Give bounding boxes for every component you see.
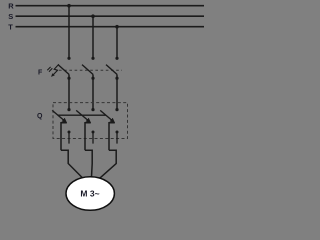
svg-text:M 3~: M 3~ — [80, 189, 99, 199]
wire L2 drop — [92, 16, 94, 57]
motor M1 body — [66, 177, 114, 211]
wire pole 1 to Q — [68, 74, 70, 110]
wire L1 drop — [68, 6, 70, 58]
contactor Q pole 2 blade with arrowhead — [76, 110, 88, 120]
switch F pole 3 bottom contact — [115, 77, 118, 80]
wire L3 drop — [116, 27, 118, 58]
switch F mechanical coupling (dashed) — [59, 69, 122, 71]
contactor Q pole 2 output corner wire — [85, 123, 91, 151]
junction dot L2 on bus S — [91, 14, 95, 18]
contactor Q pole 3 blade with arrowhead — [100, 110, 112, 120]
contactor Q pole 1 blade with arrowhead — [52, 110, 64, 120]
switch F pole 2 blade — [82, 65, 93, 75]
switch F pole 1 blade — [58, 65, 69, 75]
wire pole 3 to Q — [116, 74, 118, 110]
svg-text:F: F — [38, 70, 43, 77]
bus R — [16, 5, 205, 7]
switch F pole 1 top contact — [67, 57, 70, 60]
contactor Q pole 3 bottom terminal stub — [116, 131, 119, 134]
switch F actuator arrowhead — [51, 73, 55, 77]
contactor Q pole 1 output corner wire — [61, 123, 67, 151]
contactor Q pole 1 bottom terminal stub — [68, 131, 71, 134]
contactor Q pole 2 top contact — [91, 108, 94, 111]
bus S — [16, 15, 205, 17]
junction dot L1 on bus R — [67, 4, 71, 8]
contactor Q pole 2 bottom terminal stub — [92, 131, 95, 134]
svg-text:T: T — [8, 23, 13, 32]
wire motor lead 2 (step and diagonal) — [85, 150, 92, 177]
svg-text:R: R — [8, 2, 14, 11]
contactor Q pole 1 top contact — [67, 108, 70, 111]
contactor Q enclosure (dashed box) — [53, 103, 128, 139]
wire motor lead 3 (step and diagonal) — [100, 150, 117, 178]
bus T — [16, 26, 205, 28]
svg-text:Q: Q — [37, 113, 43, 120]
switch F pole 2 top contact — [91, 57, 94, 60]
wire motor lead 1 (step and diagonal) — [61, 150, 83, 178]
contactor Q pole 3 output corner wire — [109, 123, 115, 151]
contactor Q crossbar — [58, 114, 106, 116]
junction dot L3 on bus T — [115, 25, 119, 29]
switch F pole 3 blade — [106, 65, 117, 75]
switch F pole 1 bottom contact — [67, 77, 70, 80]
switch F pole 2 bottom contact — [91, 77, 94, 80]
svg-text:S: S — [8, 12, 13, 21]
wire pole 2 to Q — [92, 74, 94, 110]
switch F manual actuator arrow — [47, 64, 59, 75]
switch F pole 3 top contact — [115, 57, 118, 60]
contactor Q pole 3 top contact — [115, 108, 118, 111]
